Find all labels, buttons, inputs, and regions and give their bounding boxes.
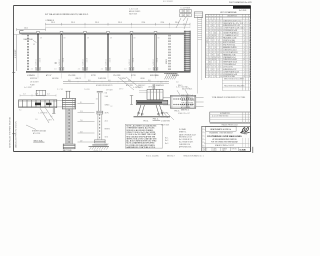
svg-text:NEG No 7: NEG No 7 <box>167 155 175 157</box>
svg-text:CHECKED J.M.: CHECKED J.M. <box>179 144 191 146</box>
svg-text:CANCELLED PRINT No 274 B.R.: CANCELLED PRINT No 274 B.R. <box>14 121 17 148</box>
svg-text:N: N <box>220 15 221 17</box>
detail E flange lines <box>170 94 196 96</box>
svg-text:3/4" DIA HOLES FOR: 3/4" DIA HOLES FOR <box>45 13 65 16</box>
splice plate on top chord at post 2 <box>60 31 63 33</box>
left vertical dimension <box>16 35 18 72</box>
svg-text:ERECTION BOLTS & DRIFTS: ERECTION BOLTS & DRIFTS <box>224 79 244 81</box>
table lower continuation lines <box>222 79 251 81</box>
detail C shaft <box>97 114 99 139</box>
svg-text:RIVETS: RIVETS <box>105 128 110 130</box>
svg-text:No 2 ISSUE G.W.R.: No 2 ISSUE G.W.R. <box>179 142 194 144</box>
border tick marks <box>12 72 15 74</box>
svg-text:No 3.: No 3. <box>165 143 169 145</box>
svg-text:6'-0: 6'-0 <box>148 80 151 82</box>
svg-text:12.3 LB: 12.3 LB <box>63 58 65 63</box>
svg-text:1/2: 1/2 <box>111 106 113 108</box>
svg-text:FIXING BOLTS,: FIXING BOLTS, <box>64 14 79 16</box>
right margin dash <box>252 147 253 153</box>
svg-text:6x3 R.S.J: 6x3 R.S.J <box>35 59 37 65</box>
svg-text:1/2 BOLTS: 1/2 BOLTS <box>161 113 168 115</box>
svg-text:23'-4: 23'-4 <box>118 22 122 24</box>
svg-text:EXISTING: EXISTING <box>30 78 38 80</box>
svg-text:4'-6: 4'-6 <box>78 68 80 70</box>
svg-text:12: 12 <box>215 30 217 32</box>
dimension arrows between details B and C <box>78 103 95 105</box>
svg-text:24: 24 <box>243 52 245 54</box>
svg-text:N: N <box>215 15 216 17</box>
dark drawing-number bar top right <box>233 6 251 9</box>
dashed hidden post right end <box>168 35 170 71</box>
table row lines <box>206 18 252 20</box>
detail D spreader band <box>136 100 168 104</box>
svg-text:16: 16 <box>243 35 245 37</box>
svg-text:2 - 8 x 3 1/2 CHS: 2 - 8 x 3 1/2 CHS <box>176 86 188 88</box>
svg-text:23'-4: 23'-4 <box>161 22 165 24</box>
svg-text:2-6x3: 2-6x3 <box>105 96 109 98</box>
cover plate detail <box>180 9 191 12</box>
svg-text:5/8: 5/8 <box>134 38 136 40</box>
splice plate on top chord at post 1 <box>37 31 40 33</box>
svg-text:16: 16 <box>209 62 211 64</box>
dashed hidden post left end <box>26 35 28 71</box>
svg-text:12: 12 <box>220 74 222 76</box>
svg-text:3'-9: 3'-9 <box>160 81 163 83</box>
detail A extension lines <box>57 99 75 101</box>
vertical stiffener post 6 <box>154 35 156 71</box>
detail D base line <box>134 115 171 117</box>
svg-text:1'-3: 1'-3 <box>80 111 83 113</box>
svg-text:4'-6: 4'-6 <box>101 68 103 70</box>
svg-text:16: 16 <box>220 76 222 78</box>
extension line from end post <box>197 17 199 94</box>
svg-text:14'-6: 14'-6 <box>24 28 28 30</box>
svg-text:12.3 LB: 12.3 LB <box>110 58 112 63</box>
vertical stiffener post 3 <box>83 35 85 71</box>
svg-text:SEE FIG 3.: SEE FIG 3. <box>181 109 190 111</box>
vertical stiffener post 1 <box>36 35 38 71</box>
svg-text:3x3: 3x3 <box>96 99 98 101</box>
svg-text:24: 24 <box>243 28 245 30</box>
svg-text:5/8: 5/8 <box>87 38 89 40</box>
svg-text:N: N <box>206 15 207 17</box>
deck line to border <box>14 34 22 36</box>
detail E left extension lines <box>163 97 170 99</box>
svg-text:24: 24 <box>206 67 208 69</box>
svg-text:PHOTOGRAPHED No 4478: PHOTOGRAPHED No 4478 <box>229 1 252 4</box>
svg-text:12: 12 <box>209 59 211 61</box>
svg-text:CONC: CONC <box>105 144 109 146</box>
svg-text:4.6.47: 4.6.47 <box>213 150 217 152</box>
title block bottom cells <box>202 146 251 148</box>
small stacked box detail <box>194 12 203 18</box>
detail B head plates <box>62 97 75 99</box>
sheet border frame <box>14 5 251 7</box>
extension ticks below bottom chord <box>37 73 39 78</box>
svg-text:3/8: 3/8 <box>33 44 35 46</box>
svg-text:STIFFENERS 5x3/8: STIFFENERS 5x3/8 <box>223 74 237 76</box>
svg-text:DESCRIPTION: DESCRIPTION <box>227 15 237 17</box>
paper background <box>0 0 256 256</box>
detail A stiffener ticks <box>22 100 24 108</box>
svg-text:12.3 LB: 12.3 LB <box>157 58 159 63</box>
svg-text:24: 24 <box>215 59 217 61</box>
detail D stub above box <box>152 84 154 89</box>
post 4 base bracket <box>106 67 111 70</box>
svg-text:No 1.: No 1. <box>165 138 169 140</box>
svg-text:FIG 5.: FIG 5. <box>144 120 149 122</box>
svg-text:12'-6 CRS: 12'-6 CRS <box>113 75 120 77</box>
svg-text:TR: TR <box>202 144 204 146</box>
right column lines through title block <box>242 138 244 148</box>
detail A dark cover plates <box>35 103 41 106</box>
svg-text:TR: TR <box>202 128 204 130</box>
svg-text:6x3 R.S.J: 6x3 R.S.J <box>82 59 84 65</box>
svg-text:DITTO DITTO: DITTO DITTO <box>223 67 233 69</box>
svg-text:LINE OF: LINE OF <box>75 78 81 80</box>
svg-text:12: 12 <box>220 50 222 52</box>
svg-text:LIST OF MATERIAL: LIST OF MATERIAL <box>220 11 237 14</box>
svg-text:TR: TR <box>202 141 204 143</box>
svg-text:6'-0: 6'-0 <box>68 80 71 82</box>
svg-text:6x3 R.S.J: 6x3 R.S.J <box>59 59 61 65</box>
svg-text:WHEN FILLED THIS PRINT MUST BE: WHEN FILLED THIS PRINT MUST BE <box>9 116 11 148</box>
svg-text:16: 16 <box>217 54 219 56</box>
detail C base plates <box>95 139 106 141</box>
company monogram logo <box>240 127 249 133</box>
svg-text:WITH NUTS: WITH NUTS <box>161 117 169 119</box>
svg-text:4'-6: 4'-6 <box>54 68 56 70</box>
svg-text:2'-0: 2'-0 <box>176 81 179 83</box>
svg-text:2 - 6 x 6 x 1/2: 2 - 6 x 6 x 1/2 <box>129 9 138 11</box>
girder bottom chord <box>26 70 191 72</box>
svg-text:TR: TR <box>202 138 204 140</box>
svg-text:No 2.: No 2. <box>165 140 169 142</box>
detail C top cap <box>97 91 103 93</box>
vertical stiffener post 4 <box>106 35 108 71</box>
svg-text:12: 12 <box>209 35 211 37</box>
svg-text:REVISED 12.9.47: REVISED 12.9.47 <box>179 137 192 139</box>
svg-text:16: 16 <box>209 37 211 39</box>
svg-text:REDUCTION RATIO 16 : 1: REDUCTION RATIO 16 : 1 <box>184 154 204 157</box>
svg-text:TR: TR <box>202 131 204 133</box>
svg-text:23'-4: 23'-4 <box>95 22 99 24</box>
detail A dimension ticks <box>20 94 56 96</box>
post 3 base bracket <box>83 67 88 70</box>
svg-text:LEVEL: LEVEL <box>140 78 145 80</box>
svg-text:16: 16 <box>243 59 245 61</box>
detail E right extension lines <box>196 97 204 99</box>
splice plate on top chord at post 4 <box>107 31 110 33</box>
svg-text:N: N <box>212 15 213 17</box>
svg-text:3/8 PL: 3/8 PL <box>105 112 109 114</box>
svg-text:16: 16 <box>215 57 217 59</box>
detail A stub under beam end <box>52 108 54 113</box>
girder top chord <box>19 32 190 34</box>
svg-text:16: 16 <box>220 52 222 54</box>
detail D left extension lines <box>139 90 147 92</box>
revision table <box>210 112 251 122</box>
svg-text:2' - 7 1/2: 2' - 7 1/2 <box>57 89 63 91</box>
overall dimension line <box>46 23 191 25</box>
svg-text:HOLES FOR 3/4 BOLTS: HOLES FOR 3/4 BOLTS <box>96 85 112 87</box>
svg-text:2'-0 CRS: 2'-0 CRS <box>84 89 90 91</box>
rule below revision table <box>210 123 251 125</box>
svg-text:2'-3: 2'-3 <box>47 94 50 96</box>
secondary dimension line <box>46 26 191 28</box>
svg-text:SEE FIG 2.: SEE FIG 2. <box>79 14 90 16</box>
small section mark box <box>36 90 45 95</box>
svg-text:DITTO: DITTO <box>131 75 137 77</box>
svg-text:SECT. C.C.: SECT. C.C. <box>94 151 104 153</box>
svg-text:23'-4: 23'-4 <box>142 22 146 24</box>
svg-text:STIFFENERS 5x3/8: STIFFENERS 5x3/8 <box>223 30 237 32</box>
detail C ground line and hatch <box>89 146 110 148</box>
svg-text:24: 24 <box>243 76 245 78</box>
svg-text:N: N <box>209 15 210 17</box>
svg-text:J.M.K.: J.M.K. <box>222 150 226 152</box>
detail D splayed legs <box>138 105 142 116</box>
svg-text:24: 24 <box>212 37 214 39</box>
svg-text:24: 24 <box>220 30 222 32</box>
svg-text:2'-3: 2'-3 <box>35 94 38 96</box>
post 5 base bracket <box>129 67 134 70</box>
svg-text:2'-3: 2'-3 <box>23 94 26 96</box>
svg-text:24: 24 <box>206 42 208 44</box>
svg-text:B.R. 33908/12: B.R. 33908/12 <box>163 1 173 3</box>
svg-text:GROUND: GROUND <box>52 78 60 80</box>
specification notes block <box>125 124 162 148</box>
svg-text:16: 16 <box>206 64 208 66</box>
svg-text:SEE FIG 2: SEE FIG 2 <box>138 85 145 87</box>
detail B top neck <box>66 91 68 98</box>
company name cell <box>206 127 237 132</box>
detail D top box <box>146 89 148 99</box>
svg-text:AT KIDDERMINSTER STATION: AT KIDDERMINSTER STATION <box>213 138 238 141</box>
svg-text:12: 12 <box>243 67 245 69</box>
svg-text:SECT. B.B.: SECT. B.B. <box>63 150 72 152</box>
svg-text:12: 12 <box>212 57 214 59</box>
svg-text:R.S.J. WITH 1/2: R.S.J. WITH 1/2 <box>181 98 193 100</box>
rule above scale row <box>204 143 250 145</box>
detail C neck <box>98 93 100 111</box>
svg-text:No D.2646: No D.2646 <box>239 10 246 12</box>
svg-text:12.3 LB: 12.3 LB <box>133 58 135 63</box>
svg-text:TOP & BOTTOM.: TOP & BOTTOM. <box>181 102 194 104</box>
svg-text:4'-6: 4'-6 <box>148 68 150 70</box>
svg-text:END POST 8 x 4: END POST 8 x 4 <box>181 95 193 97</box>
svg-text:5/8: 5/8 <box>40 38 42 40</box>
svg-text:6x3 R.S.J: 6x3 R.S.J <box>105 59 107 65</box>
svg-text:6 x 3 JOIST: 6 x 3 JOIST <box>24 87 32 89</box>
post 6 base bracket <box>153 67 158 70</box>
svg-text:12'-6 CRS: 12'-6 CRS <box>68 75 75 77</box>
svg-text:FOOTBRIDGE OVER MAIN LINES: FOOTBRIDGE OVER MAIN LINES <box>207 135 242 138</box>
approach dimension line <box>17 29 46 31</box>
end post ladder with rivet rungs <box>184 31 190 72</box>
hanger stub left of detail D <box>131 96 133 105</box>
svg-text:SECT. A.A.: SECT. A.A. <box>34 139 44 142</box>
svg-text:3'-0: 3'-0 <box>19 110 22 112</box>
splice plate on top chord at post 6 <box>154 31 157 33</box>
svg-text:4 - 3/4 BOLTS: 4 - 3/4 BOLTS <box>133 87 142 89</box>
svg-text:16: 16 <box>215 33 217 35</box>
title block frame <box>202 126 251 151</box>
svg-text:RAIL LEVEL: RAIL LEVEL <box>24 38 33 41</box>
svg-text:· · ··: · · ·· <box>12 1 15 3</box>
svg-text:FIG. 3.: FIG. 3. <box>175 111 181 113</box>
svg-text:12: 12 <box>217 52 219 54</box>
svg-text:16: 16 <box>220 28 222 30</box>
svg-text:23'-4: 23'-4 <box>71 22 75 24</box>
svg-text:4'-6: 4'-6 <box>124 68 126 70</box>
lower datum lines <box>63 81 169 83</box>
svg-text:TROUGHING 6x3: TROUGHING 6x3 <box>223 64 236 66</box>
svg-text:20'-0: 20'-0 <box>105 120 108 122</box>
handrail standard rungs <box>198 17 202 19</box>
svg-text:9'-6 DEEP: 9'-6 DEEP <box>15 49 17 58</box>
svg-text:5/8 D: 5/8 D <box>105 136 108 138</box>
svg-text:12.3 LB: 12.3 LB <box>87 58 89 63</box>
detail E rivet rows <box>173 98 176 101</box>
svg-text:D 2646: D 2646 <box>240 148 246 151</box>
svg-text:16: 16 <box>212 59 214 61</box>
svg-text:5/8: 5/8 <box>110 38 112 40</box>
svg-text:DRG No: DRG No <box>232 148 237 150</box>
vertical stiffener post 5 <box>130 35 132 71</box>
svg-text:DITTO: DITTO <box>91 75 97 77</box>
svg-text:No 1 ISSUE B.T.H.: No 1 ISSUE B.T.H. <box>179 139 193 141</box>
svg-text:24: 24 <box>217 57 219 59</box>
svg-text:1/2 IN: 1/2 IN <box>203 150 207 152</box>
title block left narrow column <box>205 126 207 151</box>
svg-text:6x3 R.S.J: 6x3 R.S.J <box>153 59 155 65</box>
splice plate on top chord at post 3 <box>84 31 87 33</box>
svg-text:6'-0: 6'-0 <box>108 80 111 82</box>
svg-text:12: 12 <box>243 42 245 44</box>
svg-text:24: 24 <box>209 64 211 66</box>
svg-text:6x3 R.S.J: 6x3 R.S.J <box>129 59 131 65</box>
svg-text:12.3 LB: 12.3 LB <box>40 58 42 63</box>
svg-text:7'-6: 7'-6 <box>80 120 83 122</box>
svg-text:ENGINEERS . WEST BROMWICH: ENGINEERS . WEST BROMWICH <box>209 133 232 135</box>
svg-text:6'-0: 6'-0 <box>88 80 91 82</box>
detail E end and splice plates <box>169 95 171 108</box>
svg-text:END POSTS 8x4: END POSTS 8x4 <box>223 45 235 47</box>
svg-text:HANDRAILING 2 DIA TUBE & STDS.: HANDRAILING 2 DIA TUBE & STDS. <box>126 146 156 149</box>
small circle mark in panel 1 <box>55 62 57 64</box>
svg-text:LTD: LTD <box>245 134 247 136</box>
svg-text:12: 12 <box>206 37 208 39</box>
svg-text:8 RIVETS 3/4 DIA: 8 RIVETS 3/4 DIA <box>32 130 46 133</box>
svg-text:12: 12 <box>217 28 219 30</box>
post 1 base bracket <box>36 67 41 70</box>
svg-text:16: 16 <box>206 40 208 42</box>
vertical stiffener post 2 <box>60 35 62 71</box>
cover plate detail leaders <box>176 18 181 28</box>
svg-text:N: N <box>218 15 219 17</box>
detail B shaft <box>67 109 71 144</box>
detail C head plates <box>97 110 103 112</box>
svg-text:BRAITHWAITE & KIRK Ld: BRAITHWAITE & KIRK Ld <box>211 128 232 131</box>
svg-text:24: 24 <box>215 35 217 37</box>
right abutment hatching <box>164 72 177 74</box>
svg-text:5/8 GUSSET: 5/8 GUSSET <box>30 81 39 83</box>
leader lines below detail D <box>160 108 168 118</box>
svg-text:16: 16 <box>212 35 214 37</box>
leader lines from elevation to detail <box>118 77 134 90</box>
svg-text:5'-9: 5'-9 <box>80 131 83 133</box>
detail B base plates <box>63 143 75 145</box>
svg-text:4'-6: 4'-6 <box>31 68 33 70</box>
svg-text:TR: TR <box>202 135 204 137</box>
post 2 base bracket <box>59 67 64 70</box>
svg-text:1'-0: 1'-0 <box>35 119 38 121</box>
svg-text:SHEET 2.: SHEET 2. <box>179 132 187 134</box>
svg-text:R.O.D. 51/2285: R.O.D. 51/2285 <box>146 155 159 157</box>
svg-text:23'-4: 23'-4 <box>51 22 55 24</box>
svg-text:BOLTS 5/8 WHIT.: BOLTS 5/8 WHIT. <box>223 42 236 44</box>
svg-text:16: 16 <box>217 30 219 32</box>
detail D anchor holes <box>138 112 140 114</box>
splice plate on top chord at post 5 <box>130 31 133 33</box>
svg-text:CHNLS: CHNLS <box>105 104 110 106</box>
detail A leader lines <box>40 108 49 123</box>
svg-text:5/8: 5/8 <box>158 38 160 40</box>
svg-text:5/8: 5/8 <box>64 38 66 40</box>
detail A beam flange lines <box>19 99 58 101</box>
